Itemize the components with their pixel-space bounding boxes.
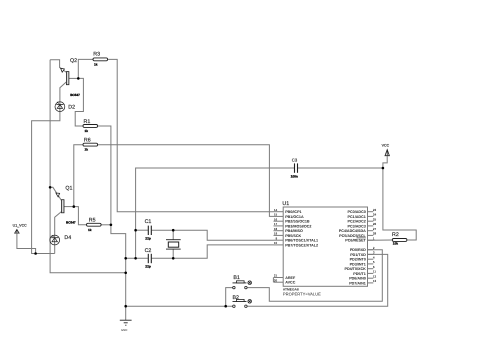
U1 pin 10 PB7/TOSC2/XTAL2 — [274, 241, 319, 247]
crystal X1 — [166, 240, 181, 249]
svg-text:R3: R3 — [93, 51, 100, 57]
U1 pin 15 PB1/OC1A — [274, 213, 304, 219]
svg-text:20: 20 — [274, 278, 278, 282]
Q1 emitter arrow — [56, 193, 60, 197]
svg-text:PD5/T1: PD5/T1 — [353, 272, 366, 276]
svg-text:PD3/INT1: PD3/INT1 — [350, 262, 366, 266]
svg-text:1k: 1k — [94, 62, 98, 66]
node Q1 base — [73, 205, 76, 208]
U1 pin 12 PD6/AIN0 — [349, 274, 376, 280]
push button B2 — [233, 295, 252, 307]
svg-text:26: 26 — [373, 222, 377, 226]
svg-text:PD1/TXD: PD1/TXD — [350, 253, 366, 257]
wire: AREF-AVCC tie — [272, 278, 274, 283]
wire: R6 left lead down to Q1 base — [74, 145, 83, 207]
node button rail-GND — [124, 305, 127, 308]
svg-text:24: 24 — [373, 213, 377, 217]
wire: ground rail to B2 — [126, 305, 233, 307]
svg-text:22p: 22p — [145, 237, 151, 241]
wire: Q2 collector to D2 — [60, 82, 67, 102]
svg-text:PD6/AIN0: PD6/AIN0 — [349, 277, 366, 281]
transistor Q1 (BC547) — [62, 186, 76, 225]
svg-text:PB4/MISO: PB4/MISO — [285, 229, 303, 233]
svg-text:25: 25 — [373, 217, 377, 221]
svg-text:Q2: Q2 — [70, 58, 77, 64]
node U1_VCC tap — [34, 252, 37, 255]
wire: Q1 emitter from rail — [50, 187, 61, 200]
svg-text:D2: D2 — [68, 104, 75, 110]
node crystal top — [172, 229, 175, 232]
svg-text:28: 28 — [373, 232, 377, 236]
resistor R6 — [83, 137, 98, 151]
U1 pin 18 PB4/MISO — [274, 227, 303, 233]
svg-text:19: 19 — [274, 232, 278, 236]
svg-text:10k: 10k — [393, 242, 398, 246]
svg-text:17: 17 — [274, 222, 278, 226]
svg-text:23: 23 — [373, 208, 377, 212]
power symbol U1_VCC — [13, 223, 28, 233]
svg-text:1k: 1k — [88, 228, 92, 232]
node crystal bottom — [172, 257, 175, 260]
svg-text:GND: GND — [121, 328, 127, 332]
svg-text:PC3/ADC3: PC3/ADC3 — [348, 224, 366, 228]
wire: crystal top lead — [172, 230, 174, 240]
wire: crystal bottom lead — [172, 249, 174, 258]
svg-text:21: 21 — [274, 274, 278, 278]
svg-text:10: 10 — [274, 241, 278, 245]
svg-text:C3: C3 — [292, 158, 298, 163]
U1 pin 16 PB2/SS/OC1B — [274, 217, 310, 223]
U1 pin 4 PD2/INT0 — [350, 255, 375, 261]
svg-text:PD7/AIN1: PD7/AIN1 — [349, 281, 366, 285]
op-amp/IC U1 ATMEGA8 body — [282, 201, 367, 296]
svg-text:PB7/TOSC2/XTAL2: PB7/TOSC2/XTAL2 — [285, 243, 318, 247]
svg-text:B1: B1 — [233, 275, 240, 281]
U1 pin 25 PC2/ADC2 — [348, 217, 377, 223]
wire: Q2 base to R1 left (S route) — [75, 78, 83, 126]
U1 pin 23 PC0/ADC0 — [348, 208, 377, 214]
U1 pin 24 PC1/ADC1 — [348, 213, 377, 219]
svg-text:PD4/T0/XCK: PD4/T0/XCK — [344, 267, 366, 271]
wire: C3 right lead to VCC junction — [298, 167, 383, 169]
U1 pin 6 PD4/T0/XCK — [344, 265, 374, 271]
svg-text:14: 14 — [274, 208, 278, 212]
wire: emitter rail from Q2 top corner down left side to GND vertical — [50, 60, 126, 273]
svg-text:PD2/INT0: PD2/INT0 — [350, 258, 366, 262]
wire: B2 right to PD1 — [247, 254, 387, 306]
U1 pin 5 PD3/INT1 — [350, 260, 375, 266]
svg-text:PC6/RESET: PC6/RESET — [345, 239, 366, 243]
node C2-GND — [124, 257, 127, 260]
U1 pin 14 PB0/ICP1 — [274, 208, 302, 214]
wire: Q2 base — [69, 77, 78, 79]
power symbol VCC — [382, 143, 390, 155]
U1 pin 3 PD1/TXD — [350, 251, 375, 257]
svg-text:PB0/ICP1: PB0/ICP1 — [285, 210, 301, 214]
overline on RESET label — [357, 237, 366, 239]
U1 pin 2 PD0/RXD — [350, 246, 375, 252]
wire: B1 right to PD0 — [247, 250, 382, 302]
U1 pin 26 PC3/ADC3 — [348, 222, 377, 228]
U1 pin 13 PD7/AIN1 — [349, 279, 376, 285]
resistor R1 — [83, 119, 98, 133]
svg-text:AVCC: AVCC — [285, 281, 296, 285]
svg-text:PD0/RXD: PD0/RXD — [350, 248, 366, 252]
capacitor C3 — [291, 158, 298, 179]
svg-text:18: 18 — [274, 227, 278, 231]
resistor R5 — [87, 217, 102, 232]
U1 pin 17 PB3/MOSI/OC2 — [274, 222, 312, 228]
wire: Q1 base to R5 left — [74, 207, 87, 225]
U1 pin 28 PC5/ADC5/SCL — [339, 232, 376, 238]
wire: GND net up and across to C3 — [136, 168, 295, 258]
wire: Q1 collector to D4 — [55, 212, 62, 236]
svg-text:27: 27 — [373, 227, 377, 231]
svg-text:11: 11 — [373, 270, 377, 274]
svg-text:R6: R6 — [84, 137, 91, 143]
LED D4 — [50, 235, 71, 245]
svg-text:U1_VCC: U1_VCC — [13, 223, 28, 227]
wire: VCC down to R2 and RESET — [383, 168, 416, 240]
resistor R3 — [93, 51, 108, 66]
transistor Q2 (BC547) — [66, 58, 80, 97]
U1 pin 11 PD5/T1 — [353, 270, 376, 276]
node R1-R5 — [110, 224, 113, 227]
wire: U1_VCC stem — [17, 233, 36, 253]
wire: VCC stem — [383, 156, 387, 168]
wire: C2 right lead to XTAL2 — [152, 245, 274, 258]
svg-text:BC547: BC547 — [66, 220, 76, 224]
wire: D2 cathode chain down-left — [32, 112, 60, 254]
wire: D4 bottom lead — [54, 245, 56, 254]
wire: R6 right to PB1 — [98, 145, 274, 217]
svg-text:AREF: AREF — [285, 276, 296, 280]
LED D2 — [55, 102, 75, 112]
node B1 tap — [224, 305, 227, 308]
svg-text:PB5/SCK: PB5/SCK — [285, 234, 301, 238]
svg-text:VCC: VCC — [382, 143, 390, 147]
svg-text:PC1/ADC1: PC1/ADC1 — [348, 215, 366, 219]
push button B1 — [233, 275, 252, 289]
svg-text:PB1/OC1A: PB1/OC1A — [285, 215, 304, 219]
svg-text:22p: 22p — [145, 265, 151, 269]
wire: R3 right down to PB0 — [108, 59, 274, 211]
capacitor C1 — [145, 219, 152, 240]
svg-text:PB6/TOSC1/XTAL1: PB6/TOSC1/XTAL1 — [285, 239, 318, 243]
svg-text:16: 16 — [274, 217, 278, 221]
svg-text:1k: 1k — [85, 129, 89, 133]
U1 pin 19 PB5/SCK — [274, 232, 302, 238]
U1 pin 9 PB6/TOSC1/XTAL1 — [274, 236, 319, 242]
svg-text:R2: R2 — [392, 232, 399, 238]
svg-text:13: 13 — [373, 279, 377, 283]
svg-text:C1: C1 — [145, 219, 152, 225]
node Q1 emitter rail — [49, 186, 52, 189]
wire: B1 left down to rail — [226, 288, 233, 307]
svg-text:PB2/SS/OC1B: PB2/SS/OC1B — [285, 220, 310, 224]
wire: R1 right down to R5 junction — [98, 126, 111, 225]
svg-text:Q1: Q1 — [65, 186, 72, 192]
wire: C1 right lead to XTAL1 — [152, 230, 274, 240]
U1 pin 20 AVCC — [274, 278, 296, 284]
svg-text:C2: C2 — [145, 248, 152, 254]
wire: C2 left lead — [126, 257, 148, 259]
svg-text:12: 12 — [373, 274, 377, 278]
svg-text:D4: D4 — [64, 235, 71, 241]
svg-text:PC5/ADC5/SCL: PC5/ADC5/SCL — [339, 234, 366, 238]
node C1-GND riser — [134, 229, 137, 232]
svg-text:1k: 1k — [85, 148, 89, 152]
node emitter rail-GND — [124, 272, 127, 275]
svg-text:15: 15 — [274, 213, 278, 217]
svg-text:100n: 100n — [291, 175, 298, 179]
svg-text:B2: B2 — [233, 295, 240, 301]
svg-text:PC4/ADC4/SDA: PC4/ADC4/SDA — [339, 229, 366, 233]
U1 pin 1 PC6/RESET — [345, 236, 375, 242]
capacitor C2 — [145, 248, 152, 269]
wire: C1 left lead — [136, 229, 148, 231]
svg-text:U1: U1 — [282, 201, 289, 207]
svg-text:PC0/ADC0: PC0/ADC0 — [348, 210, 366, 214]
wire: Q1 base — [64, 206, 74, 208]
U1 pin 21 AREF — [274, 274, 296, 280]
U1 pin 27 PC4/ADC4/SDA — [339, 227, 377, 233]
wire: Q2 emitter top jog — [50, 60, 66, 73]
wire: R5 right to GND chain down to ground — [101, 224, 111, 226]
Q2 emitter arrow — [61, 68, 65, 72]
node C2 line — [134, 257, 137, 260]
svg-text:PROPERTY=VALUE: PROPERTY=VALUE — [283, 292, 321, 297]
resistor R2 — [392, 232, 407, 245]
svg-text:R5: R5 — [89, 217, 96, 223]
svg-text:PC2/ADC2: PC2/ADC2 — [348, 220, 366, 224]
svg-text:R1: R1 — [84, 119, 91, 125]
node Q2 base — [77, 77, 80, 80]
node VCC-C3 — [382, 167, 385, 170]
svg-text:PB3/MOSI/OC2: PB3/MOSI/OC2 — [285, 224, 311, 228]
ground symbol GND — [120, 320, 132, 332]
wire: R2 left to RESET pin — [368, 239, 393, 241]
wire: Q2 base to R3 left — [78, 59, 93, 78]
svg-text:BC547: BC547 — [70, 93, 80, 97]
